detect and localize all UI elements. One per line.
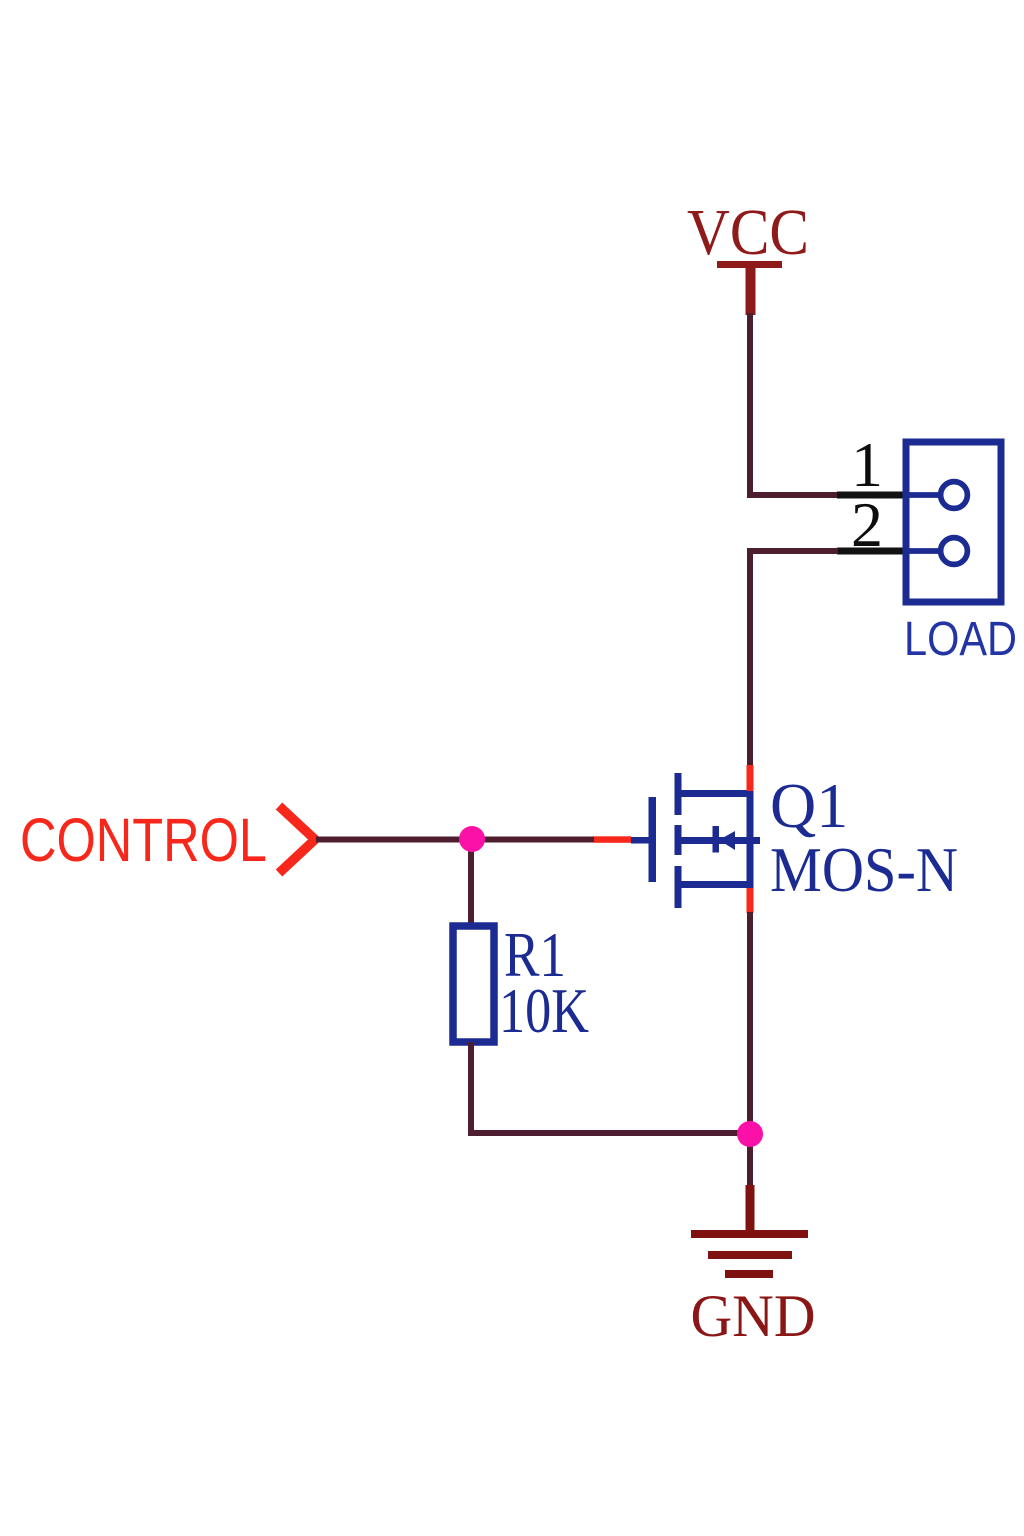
CONTROL port arrow [279, 806, 315, 873]
connector pin 2 lead [906, 548, 941, 554]
channel segment top [675, 773, 682, 815]
drain connection line [678, 790, 754, 797]
junction node A [459, 826, 485, 852]
power symbol VCC [687, 196, 809, 315]
connector P1 LOAD body [906, 442, 1001, 602]
transistor Q1 MOS-N symbol [631, 773, 760, 908]
gate bar [649, 797, 657, 882]
wire R1 bottom to ground net [471, 1042, 752, 1133]
svg-text:10K: 10K [499, 976, 589, 1046]
wire pin1 black segment [837, 492, 908, 499]
wire source to ground junction [747, 912, 753, 1134]
svg-text:LOAD: LOAD [904, 612, 1017, 666]
gate lead [631, 837, 650, 844]
junction node B [737, 1121, 763, 1147]
wire junction to R1 [468, 839, 474, 927]
body connection line [678, 837, 760, 844]
channel segment middle [675, 825, 682, 855]
svg-text:Q1: Q1 [770, 770, 848, 841]
wire connector pin 2 black segment [837, 548, 908, 555]
wire pin2 to MOSFET drain [750, 551, 838, 766]
source connection line [678, 881, 754, 888]
wire CONTROL to gate [316, 837, 595, 843]
gate pin red stub [594, 836, 631, 843]
right vertical line [747, 790, 754, 888]
wire junction to GND [747, 1134, 753, 1188]
connector pin 2 circle [941, 538, 968, 565]
svg-text:VCC: VCC [687, 196, 809, 269]
channel segment bottom [675, 866, 682, 908]
drain pin red stub [747, 765, 754, 791]
body diode cathode bar [713, 826, 720, 853]
connector pin 1 circle [941, 482, 968, 509]
body diode arrow [719, 831, 735, 850]
svg-text:CONTROL: CONTROL [20, 806, 267, 874]
resistor R1 body [453, 926, 494, 1042]
wire VCC to connector pin 1 [750, 313, 838, 495]
source pin red stub [747, 888, 754, 913]
ground symbol [691, 1185, 816, 1349]
svg-text:2: 2 [851, 489, 883, 560]
svg-text:MOS-N: MOS-N [770, 835, 958, 905]
svg-text:GND: GND [691, 1283, 816, 1349]
connector pin 1 lead [906, 492, 941, 498]
